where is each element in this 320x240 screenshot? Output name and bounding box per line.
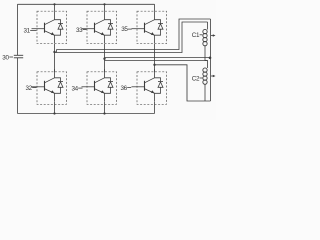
IGBT switch 35 [132,11,167,44]
wire: leg3 top drop [154,4,156,11]
svg-text:35: 35 [121,26,128,33]
wire: output P2 lower line [105,61,208,69]
wire: coil C2 bottom stub [204,85,206,102]
wire: P1 end cap [56,50,58,53]
wire: leg2 midpoint [104,44,106,72]
wire: right rail [210,19,212,101]
leader C1 [200,34,203,36]
IGBT switch 31 [32,11,67,44]
svg-text:32: 32 [25,85,32,92]
junction node top bus leg2 [103,3,105,5]
wire: leg2 bottom drop [104,102,106,114]
svg-text:30: 30 [2,54,9,61]
junction node bottom bus leg2 [103,112,105,114]
capacitor 30 plate bottom [14,57,23,59]
wire: coil C1 top inner stub [207,22,209,30]
wire: bottom DC bus [18,113,155,115]
svg-text:36: 36 [120,85,127,92]
leader 32 [32,87,36,89]
wire: left DC rail lower [17,58,19,114]
IGBT switch 36 [132,69,167,104]
svg-text:31: 31 [23,28,30,35]
wire: leg1 top drop [54,4,56,11]
wire: leg2 top drop [104,4,106,11]
IGBT switch 32 [32,69,67,104]
wire: top DC bus [18,3,155,5]
svg-text:34: 34 [71,85,78,92]
svg-text:33: 33 [76,27,83,34]
arrow at coil C2 [211,75,216,77]
wire: leg3 midpoint [154,44,156,72]
junction node leg3 output [153,64,155,66]
leader 31 [30,29,36,31]
wire: output P1 lower line [55,22,208,53]
junction node top bus leg1 [53,3,55,5]
leader 33 [83,29,87,31]
wire: output P3 (leg3 to coil C2 bottom) [155,65,211,101]
wire: output P2 upper line (leg2 to node) [105,57,211,59]
coil C1 [203,29,207,45]
capacitor 30 plate top [14,54,23,56]
junction node bottom bus leg1 [53,112,55,114]
wire: output P1 upper line (leg1 to coil C1 top) [57,19,211,50]
leader 35 [128,28,132,30]
junction node leg2 output [103,58,105,60]
coil C2 [203,68,207,84]
leader C2 [200,77,203,79]
wire: leg3 bottom drop [154,102,156,114]
arrow at coil C1 [211,34,216,36]
leader 36 [127,87,131,89]
junction node leg1 output [53,51,55,53]
wire: leg1 bottom drop [54,102,56,114]
wire: left DC rail upper [17,4,19,55]
IGBT switch 33 [82,11,117,44]
leader 34 [78,87,82,89]
junction node right rail / P2 [209,57,212,60]
svg-text:C2: C2 [192,75,200,82]
svg-text:C1: C1 [192,32,200,39]
leader 30 [9,56,13,58]
wire: coil C1 bottom stub [205,46,208,61]
IGBT switch 34 [82,69,117,104]
wire: leg1 midpoint [54,44,56,72]
